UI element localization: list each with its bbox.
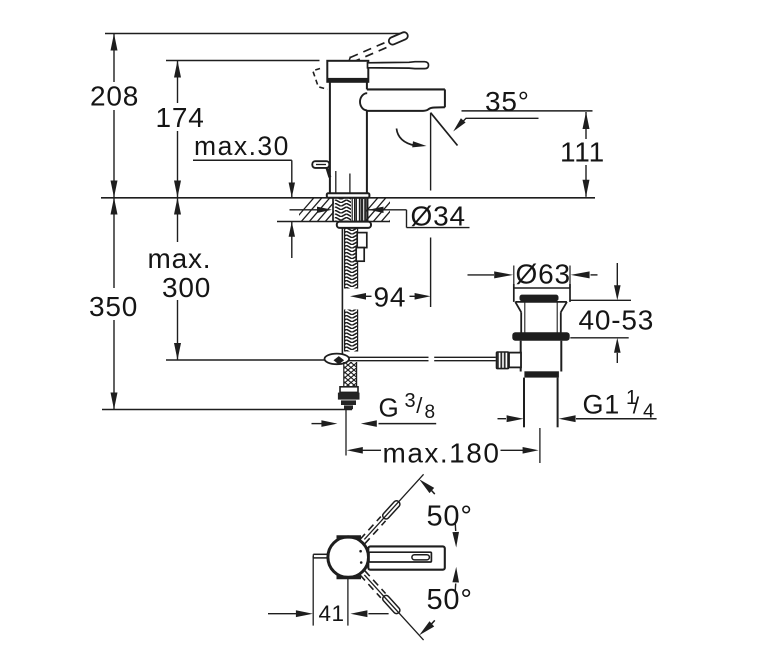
ext 4053 top <box>570 299 632 301</box>
dim O34 left arrow <box>290 207 333 213</box>
counter hatching left <box>292 197 355 224</box>
plug side walls <box>514 284 570 302</box>
leader vertical max30 upper <box>291 160 293 197</box>
label 174 <box>156 102 205 133</box>
top view spout <box>368 546 445 569</box>
dim 111 vertical <box>585 112 587 197</box>
arrow 174 top <box>174 61 181 78</box>
dim G38 right arrow+underline <box>361 420 436 427</box>
hose nipple lower <box>356 248 364 262</box>
rod inside body <box>336 171 350 193</box>
label 4053 <box>579 305 655 336</box>
svg-text:208: 208 <box>90 81 139 112</box>
spout-body joint arc <box>360 93 367 110</box>
halo max300 <box>144 242 216 300</box>
top view lever 50deg down grip <box>381 594 401 615</box>
arrow 350 top <box>111 198 118 215</box>
top view lever 50deg up grip <box>381 500 401 521</box>
arrow 350 bottom <box>111 393 118 410</box>
label O63 <box>516 259 571 290</box>
dim 41 right <box>350 610 388 617</box>
drain neck walls <box>521 303 561 333</box>
top view lever 50deg up dashed sides <box>360 517 386 544</box>
label 50deg upper <box>427 501 473 533</box>
ext 4053 bottom <box>570 337 628 339</box>
arrow 111 bottom <box>583 180 590 197</box>
body left edge <box>329 82 331 193</box>
counter top surface line <box>101 197 595 199</box>
svg-text:50°: 50° <box>427 584 473 616</box>
hose fitting G38 <box>338 387 360 409</box>
svg-text:35°: 35° <box>485 86 530 117</box>
svg-text:3: 3 <box>405 390 416 412</box>
spout top line <box>367 88 445 90</box>
top view lever slot <box>412 555 430 560</box>
lever raised dashed shaft <box>350 40 392 62</box>
ext 41 left <box>312 556 314 626</box>
cap tilted dashed outline <box>313 69 328 90</box>
extension line top of cap (174 ref) <box>166 60 320 62</box>
horizontal pop-up rod <box>329 357 496 360</box>
threaded rod upper <box>345 228 358 289</box>
stream direction 35deg line <box>431 113 458 146</box>
label 35deg <box>485 86 530 117</box>
arrow 208 bottom <box>111 181 118 198</box>
dimension line 208/350 vertical x=114 <box>113 34 115 410</box>
top view dot lower <box>360 561 363 564</box>
body right edge upper <box>366 82 368 90</box>
lever horizontal <box>368 62 429 69</box>
dim O34 leader step <box>407 210 470 228</box>
svg-text:41: 41 <box>319 601 345 626</box>
top view pop-up knob stub <box>313 554 328 558</box>
label O34 <box>411 201 466 232</box>
label max300 line1 <box>148 243 212 274</box>
rod boss <box>509 353 521 368</box>
counter hatching right <box>356 197 411 224</box>
cartridge cap <box>327 61 368 82</box>
svg-text:/: / <box>416 393 423 418</box>
drain centerline extension <box>539 428 541 463</box>
svg-text:max.180: max.180 <box>383 438 501 469</box>
label 41 <box>319 601 345 626</box>
svg-text:50°: 50° <box>427 501 473 533</box>
stream swivel arc <box>397 129 427 148</box>
top view lever 50deg down dashed sides <box>360 571 386 598</box>
top view dot upper <box>359 550 362 553</box>
arrow max30 up <box>289 222 295 237</box>
shank left wall <box>332 198 334 221</box>
spout end face <box>444 89 446 107</box>
svg-text:/: / <box>633 393 640 419</box>
angle ext line 50deg up <box>364 474 423 539</box>
cap pivot hidden dashes <box>348 57 360 75</box>
reference line check-valve level (max300 ref) <box>166 359 326 361</box>
dimension line 174/max300 vertical x=177.5 <box>177 61 179 361</box>
arrow 174 bottom <box>174 181 181 198</box>
svg-text:8: 8 <box>425 402 436 423</box>
label max30 <box>194 131 290 161</box>
label max180 <box>383 438 501 469</box>
arrow 50deg up on ext line <box>419 479 435 494</box>
rod clamp <box>325 354 350 365</box>
leader 35deg <box>453 118 538 131</box>
arrow 50deg down on ext line <box>419 620 435 635</box>
dark tube in counter <box>361 198 367 221</box>
label G114 <box>583 387 655 423</box>
label 94 <box>374 282 407 313</box>
svg-text:G1: G1 <box>583 390 621 420</box>
top view body circle <box>328 537 369 578</box>
svg-text:350: 350 <box>89 291 138 322</box>
svg-text:4: 4 <box>643 401 654 423</box>
svg-text:94: 94 <box>374 282 407 313</box>
counter bottom line <box>277 221 390 223</box>
dim G114 left arrow <box>498 415 524 422</box>
aerator vertical reference lower <box>430 238 432 308</box>
lever raised tip <box>388 31 409 46</box>
arrow 50deg up at spout <box>452 524 459 548</box>
dim G38 left arrow <box>312 420 338 427</box>
label 111 <box>560 137 605 168</box>
arrow max300 top <box>174 198 181 215</box>
dim G114 right arrow+underline <box>559 415 657 422</box>
spout bottom with mousseur notch <box>367 107 445 111</box>
ext 41 right <box>347 578 349 626</box>
dim 94 right arrow <box>410 293 431 300</box>
leader underline max30 <box>193 159 292 161</box>
halo 208 <box>88 82 140 110</box>
hose nipple upper <box>357 233 367 248</box>
label G38 <box>379 390 436 423</box>
hose tube lines in counter <box>356 198 359 221</box>
mounting nut <box>337 222 371 228</box>
arrow 111 top <box>583 112 590 129</box>
tailpipe walls <box>524 378 558 428</box>
svg-text:174: 174 <box>156 102 205 133</box>
halo 111 <box>557 139 610 165</box>
dim max180 left <box>347 447 381 454</box>
arrow 50deg down at spout <box>452 567 459 591</box>
threaded rod lower <box>345 310 358 352</box>
locking ring <box>512 332 569 340</box>
dim 94 left arrow <box>350 293 372 300</box>
rod gap <box>429 356 435 363</box>
extension line top of lever (208 ref) <box>105 33 402 35</box>
label 350 <box>89 291 138 322</box>
drain cone <box>515 302 567 312</box>
dim O63 left <box>468 271 514 278</box>
halo 174 <box>152 103 206 131</box>
svg-text:max.: max. <box>148 243 212 274</box>
pop-up rod lines in counter <box>352 198 354 221</box>
svg-text:max.30: max.30 <box>194 131 290 161</box>
arrow 208 top <box>111 34 118 51</box>
aerator vertical reference upper <box>430 113 432 191</box>
plug seal band <box>520 295 559 302</box>
svg-text:111: 111 <box>560 137 605 168</box>
ref line 111 top <box>462 110 593 112</box>
dim 41 left <box>268 610 313 617</box>
O63 extension line right <box>569 266 571 289</box>
plug top line <box>514 287 570 289</box>
O63 extension line left <box>513 266 515 289</box>
pop-up rod knob <box>312 161 330 177</box>
label max300 line2 <box>162 272 211 303</box>
svg-text:G: G <box>379 393 400 423</box>
label 50deg lower <box>427 584 473 616</box>
halo 350 <box>86 288 142 320</box>
svg-text:300: 300 <box>162 272 211 303</box>
top view flat bottom <box>337 576 362 579</box>
drain body bottom band <box>524 371 559 377</box>
label 208 <box>90 81 139 112</box>
arrow max30 down <box>289 183 295 198</box>
dim O63 right <box>571 271 598 278</box>
arrow max300 bottom <box>174 343 181 360</box>
dim 4053 bottom <box>614 338 621 363</box>
dim 4053 top <box>614 263 621 300</box>
body right edge lower <box>366 111 368 193</box>
top view lever rod <box>369 552 431 562</box>
knurled adjuster knob <box>497 352 509 369</box>
shank right wall <box>367 198 369 221</box>
svg-text:Ø63: Ø63 <box>516 259 571 290</box>
threaded section in counter <box>335 198 351 221</box>
cap bottom band <box>327 78 368 82</box>
drain body walls <box>521 341 562 372</box>
svg-text:40-53: 40-53 <box>579 305 655 336</box>
angle ext line 50deg down <box>364 575 423 640</box>
braided hose <box>344 362 357 388</box>
base plate <box>327 193 370 198</box>
reference line bottom of hoses (350 ref) <box>102 409 352 411</box>
leader vertical max30 lower <box>291 222 293 258</box>
pop-up rod below counter <box>341 228 343 357</box>
top view flat top <box>337 535 362 538</box>
dim O34 right arrow <box>369 207 407 213</box>
hose centerline extension <box>345 409 347 456</box>
dim max180 right <box>501 447 539 454</box>
svg-text:Ø34: Ø34 <box>411 201 466 232</box>
